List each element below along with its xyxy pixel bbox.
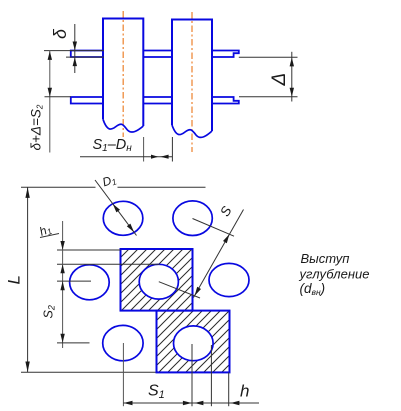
extension line S2 top (row2 circle center) xyxy=(57,280,91,282)
arrow right of V2 (pointing left) xyxy=(195,401,204,405)
extension line at plate1 bottom xyxy=(66,56,104,58)
bottom dimension line xyxy=(123,402,259,404)
arrow down (L bottom) xyxy=(25,362,29,373)
extension line for Delta (bottom, at plate2 top level) xyxy=(239,96,298,98)
svg-text:δ+Δ=S2: δ+Δ=S2 xyxy=(29,104,45,150)
extension line tube1 right edge down xyxy=(143,137,145,162)
svg-text:Выступ: Выступ xyxy=(301,251,350,266)
svg-text:L: L xyxy=(5,275,24,284)
tube 2 outline xyxy=(172,20,212,132)
extension line h1 top (square1 top level) xyxy=(57,249,121,251)
extension line V1 (row3 circle center) xyxy=(122,343,124,406)
circle row3 left xyxy=(103,325,143,360)
plate 1 left stub xyxy=(71,51,103,58)
S1 arrow right (tip at V2) xyxy=(183,401,192,405)
circle row2 left xyxy=(70,265,110,300)
extension line at plate2 top (left) xyxy=(45,96,72,98)
dimension delta: line above plate xyxy=(74,24,76,50)
plate 1 middle segment xyxy=(143,51,172,58)
extension line S2 bottom (row3 circle center) xyxy=(57,342,90,344)
dimension line for delta+Delta=S2 xyxy=(49,51,51,153)
arrow down at plate2 top xyxy=(48,88,52,97)
dimension delta: line crossing plate xyxy=(74,50,76,58)
S dimension line (diagonal) xyxy=(194,210,244,298)
circle inside square 1 xyxy=(139,264,178,299)
extension line tube2 left edge down xyxy=(171,137,173,162)
circle row1 right xyxy=(173,201,212,236)
centerline of tube 2 (orange dash-dot) xyxy=(191,12,193,152)
svg-text:Δ: Δ xyxy=(269,73,290,87)
hatched square 2 xyxy=(157,311,230,373)
extension line at plate1 top xyxy=(44,50,104,52)
dimension delta: line below plate xyxy=(74,57,76,73)
dimension line Delta xyxy=(291,52,293,102)
arrow down (Delta bottom) xyxy=(290,88,294,97)
extension line h1 bottom (inner circle top level) xyxy=(57,263,160,265)
S diagonal extension line from square1 circle center xyxy=(159,282,200,298)
extension line V4 (square2 right edge) xyxy=(228,373,230,407)
hatched square 1 xyxy=(121,249,193,311)
bottom extension line of L xyxy=(21,371,157,373)
dimension line S1-Dn with label shelf xyxy=(80,156,172,158)
dimension delta: arrow down xyxy=(73,42,77,51)
tube 1 break (wavy bottom) xyxy=(103,119,143,132)
S1 arrow left (tip at V1) xyxy=(124,401,133,405)
D1 arrow upper (on circle edge) xyxy=(113,204,120,213)
plate 2 middle segment xyxy=(143,97,172,104)
svg-text:δ: δ xyxy=(50,28,70,39)
circle row1 left (tube cross-section) xyxy=(103,201,143,235)
S arrow upper (pointing up-right) xyxy=(223,234,229,243)
circle row2 right xyxy=(209,263,249,296)
S2 arrow down (tip at bottom ext) xyxy=(60,334,64,343)
arrow up (Delta top) xyxy=(290,58,294,67)
svg-text:углубление: углубление xyxy=(299,266,370,281)
dimension line D1 (diagonal through top-left circle) xyxy=(95,180,137,236)
S arrow lower (pointing down-left) xyxy=(195,287,201,296)
extension line for Delta (top, at plate1 bottom level) xyxy=(239,56,298,58)
extension line V3 (square2 circle right tangent) xyxy=(210,345,212,406)
arrow pair at center of S1-Dn xyxy=(151,155,158,159)
h arrow (tip at V4, pointing left from outside) xyxy=(231,401,240,405)
D1 arrow lower (on circle edge) xyxy=(127,224,134,233)
tube 2 break (wavy bottom) xyxy=(172,125,212,137)
centerline of tube 1 (orange dash-dot) xyxy=(122,11,124,137)
h1 arrow down (above) xyxy=(60,241,64,250)
arrow up (L top) xyxy=(25,187,29,198)
arrow up at plate1 top xyxy=(48,51,52,60)
plate 2 left stub xyxy=(71,97,103,104)
plate 1 right stub (beveled end) xyxy=(212,51,239,58)
plate 2 right stub (beveled end) xyxy=(212,97,239,104)
extension line V2 (square2 circle center) xyxy=(191,344,193,406)
S diagonal extension line from row1-right circle center xyxy=(193,219,235,237)
h1 arrow up (below) xyxy=(60,264,64,273)
tube 1 outline xyxy=(103,19,143,127)
dimension line L xyxy=(27,187,29,372)
svg-text:h: h xyxy=(240,382,249,401)
dimension delta: arrow up xyxy=(73,57,77,66)
circle inside square 2 xyxy=(174,326,214,361)
top extension line of L xyxy=(21,186,96,188)
S2 arrow up (tip at top ext) xyxy=(60,281,64,290)
dimension line h1 / S2 (vertical) xyxy=(62,221,64,348)
